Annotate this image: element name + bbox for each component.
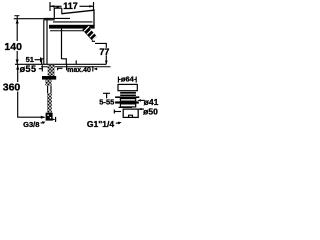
- spout bottom line: [50, 30, 85, 32]
- svg-text:ø55: ø55: [20, 64, 37, 74]
- dim 360 arrow: [41, 116, 46, 119]
- lever blade: [62, 9, 95, 14]
- spout body bar: [49, 25, 94, 29]
- lock nut: [115, 101, 139, 103]
- dim 360 label: [2, 82, 22, 92]
- base flare left: [42, 59, 44, 65]
- hose connector: [46, 113, 53, 121]
- dim 77 leader: [95, 43, 106, 64]
- svg-text:360: 360: [3, 81, 21, 93]
- dim 140 arrows: [16, 19, 19, 65]
- body left edge outer: [43, 20, 45, 65]
- svg-text:51: 51: [26, 55, 34, 64]
- shank lower hatched: [45, 80, 51, 86]
- body cap line: [44, 17, 70, 19]
- svg-text:max.40: max.40: [67, 67, 91, 74]
- svg-text:ø64: ø64: [121, 75, 135, 84]
- aerator tip mark: [92, 40, 95, 42]
- dim o55 tick: [39, 68, 43, 70]
- lever pivot block top: [54, 7, 62, 9]
- max40 left tick: [58, 68, 63, 70]
- G3/8 leader: [41, 122, 44, 124]
- dim o64 label: [121, 76, 135, 83]
- lever nub: [57, 6, 59, 8]
- tail notch: [129, 115, 133, 117]
- thread box: [120, 99, 135, 102]
- connector highlight dots: [47, 115, 48, 116]
- svg-text:G1"1/4: G1"1/4: [87, 119, 114, 129]
- mounting nut: [42, 76, 56, 80]
- waste seal discs: [120, 92, 136, 96]
- max40 arrow: [93, 68, 97, 71]
- dim 117 arrows: [50, 5, 94, 7]
- dim 51 leader: [35, 59, 41, 61]
- dim 360 line: [18, 64, 45, 117]
- deck line bottom: [41, 66, 111, 68]
- head right face: [93, 9, 95, 28]
- dim 5-55 bottom leader: [114, 111, 121, 113]
- lever pivot block left edge: [53, 8, 55, 18]
- tailpiece: [123, 109, 138, 117]
- tail top line: [119, 106, 132, 108]
- dim 140 line: [16, 16, 18, 64]
- dim 140 extension line: [14, 18, 50, 20]
- dim 5-55 top tick: [103, 92, 110, 94]
- deck tick x76: [75, 60, 77, 64]
- dim o41 leader: [139, 99, 145, 101]
- dim 360 up arrow at deck: [16, 65, 19, 70]
- svg-text:77: 77: [99, 47, 109, 57]
- svg-text:ø50: ø50: [143, 107, 158, 117]
- svg-text:5-55: 5-55: [99, 98, 114, 107]
- hose end tick: [55, 117, 57, 122]
- max40 right tick: [92, 66, 94, 72]
- lever pivot block right edge: [61, 8, 63, 14]
- lower box: [120, 104, 135, 107]
- deck line top: [15, 63, 106, 65]
- spout top line: [53, 21, 93, 23]
- waste cap: [118, 84, 137, 90]
- shank hatched: [48, 65, 55, 76]
- dim 51 tick: [40, 57, 42, 62]
- svg-text:ø41: ø41: [144, 97, 159, 107]
- hose upper lines: [47, 86, 49, 94]
- body right edge: [61, 29, 63, 59]
- svg-text:117: 117: [63, 1, 78, 11]
- o55 right extension tick: [66, 64, 68, 70]
- basin line: [115, 96, 139, 98]
- dim o64 line: [118, 78, 136, 80]
- dim o64 ticks: [117, 77, 119, 83]
- dim 117 dimension line: [50, 2, 94, 11]
- svg-text:G3/8: G3/8: [23, 120, 39, 129]
- G1 1/4 leader: [116, 122, 120, 124]
- base flare right: [62, 59, 67, 65]
- aerator angled nozzle: [84, 26, 97, 40]
- dim 77 label: [100, 48, 110, 56]
- svg-text:140: 140: [4, 41, 22, 53]
- dim 140 top cap tick: [14, 15, 19, 17]
- body top step: [44, 19, 55, 21]
- dim 77 arrow at deck: [105, 61, 108, 65]
- dim 140 label: [3, 41, 24, 51]
- dim o50 leader: [139, 108, 144, 110]
- body left edge inner: [46, 20, 48, 65]
- hose hatched: [47, 93, 52, 113]
